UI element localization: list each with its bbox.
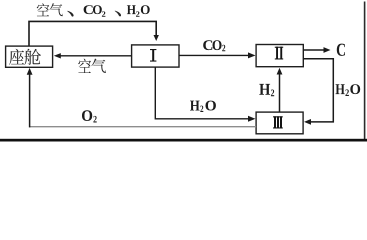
right page border line	[364, 2, 366, 141]
bottom thick page border line	[0, 139, 367, 142]
arrowhead right into box III	[248, 116, 256, 122]
arrowhead left into box III	[304, 119, 311, 125]
wire box I left to 座舱 right (air return)	[61, 55, 132, 57]
wire box III left to 座舱 bottom (O2), horizontal gray segment	[30, 126, 257, 128]
arrowhead right toward C	[324, 47, 331, 53]
label 空气	[78, 59, 106, 73]
arrowhead up into 座舱 bottom	[27, 68, 33, 75]
label H2O middle	[190, 101, 200, 111]
label C output	[337, 44, 345, 56]
wire O2 vertical up into 座舱	[29, 75, 31, 128]
box I	[132, 45, 179, 67]
numeral III in box III	[273, 116, 283, 128]
wire box I bottom down and right into box III left (H2O)	[155, 67, 248, 119]
arrowhead up into box II	[277, 68, 283, 75]
label O2	[82, 110, 92, 121]
box II	[256, 45, 303, 67]
box 座舱 (cabin)	[6, 46, 53, 67]
wire box II right to C output	[303, 49, 324, 51]
label H2O right	[336, 84, 345, 94]
label CO2	[203, 40, 212, 50]
arrowhead left into 座舱	[54, 53, 61, 58]
box III	[256, 112, 303, 134]
arrowhead down into box I top	[154, 35, 159, 41]
arrowhead right into box II	[248, 52, 256, 58]
wire box III top up into box II bottom (H2)	[279, 75, 281, 113]
label H2	[259, 84, 270, 95]
numeral I in box I	[150, 49, 156, 62]
wire box I right to box II left (CO2)	[179, 54, 249, 56]
numeral II in box II	[275, 47, 283, 60]
label 空气、CO2、H2O on top wire	[37, 3, 150, 17]
wire 座舱 top up and right into box I top	[29, 21, 156, 45]
label 座舱	[9, 49, 41, 65]
wire box II right down into box III right (H2O)	[303, 59, 333, 122]
